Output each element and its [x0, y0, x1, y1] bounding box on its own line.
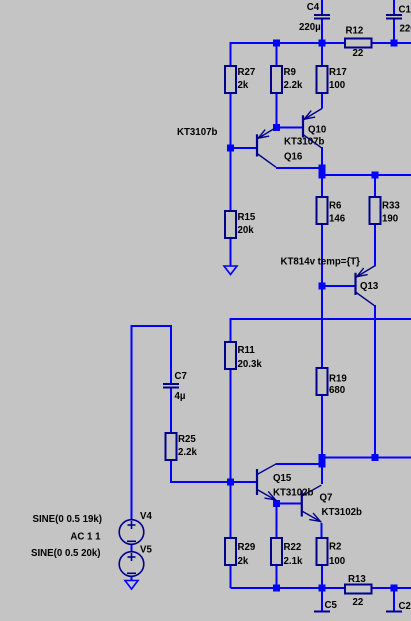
wire C1 top lead	[393, 0, 395, 14]
svg-text:220µ: 220µ	[299, 22, 321, 33]
wire C1 bottom lead	[393, 19, 395, 43]
svg-text:680: 680	[329, 385, 345, 396]
svg-text:R17: R17	[329, 67, 347, 78]
wire Q13 base	[322, 285, 356, 287]
node junction mid rail / R33	[372, 172, 379, 179]
svg-text:220: 220	[400, 24, 411, 35]
wire Q7 emitter to R2	[321, 523, 323, 538]
resistor R25	[166, 433, 198, 460]
svg-text:R15: R15	[238, 212, 256, 223]
wire V+ column to R27	[230, 42, 232, 66]
svg-text:KT814v temp={T}: KT814v temp={T}	[281, 257, 361, 268]
svg-text:22: 22	[353, 597, 364, 608]
wire loop to C7	[170, 325, 172, 383]
svg-text:R19: R19	[329, 374, 347, 385]
resistor R11	[225, 342, 262, 370]
capacitor C7	[163, 371, 187, 402]
wire mid rail right	[322, 174, 411, 176]
wire Q7 base	[277, 503, 302, 505]
wire C4 bottom lead	[321, 19, 323, 43]
node junction top rail / R9	[273, 40, 280, 47]
node junction Q13 base tap	[319, 283, 326, 290]
transistor Q16 (PNP)	[257, 128, 276, 168]
resistor R19	[317, 368, 348, 396]
svg-text:190: 190	[382, 214, 398, 225]
svg-text:SINE(0 0.5 20k): SINE(0 0.5 20k)	[31, 548, 100, 559]
svg-text:R9: R9	[284, 67, 297, 78]
svg-text:C5: C5	[325, 600, 338, 611]
wire V5 to ground	[131, 576, 133, 581]
wire C5 lead	[321, 588, 323, 611]
node junction bottom rail / R2-C5	[319, 585, 326, 592]
svg-text:R22: R22	[284, 542, 302, 553]
svg-text:C4: C4	[307, 2, 320, 13]
node junction R9 / Q16 emitter / Q10 base	[273, 124, 280, 131]
node junction Q16 base / R27-R15	[227, 145, 234, 152]
svg-text:100: 100	[329, 80, 345, 91]
svg-text:AC 1 1: AC 1 1	[70, 532, 101, 543]
wire C7 to R25	[170, 388, 172, 433]
svg-text:R12: R12	[346, 26, 364, 37]
capacitor C4	[299, 2, 330, 33]
wire Q16 base	[231, 147, 258, 149]
svg-text:KT3107b: KT3107b	[284, 137, 324, 148]
node junction output rail / R19	[319, 454, 326, 461]
wire top rail to R17	[321, 43, 323, 66]
wire top rail left	[231, 42, 346, 44]
resistor R33	[370, 197, 401, 225]
resistor R22	[271, 538, 303, 567]
svg-text:C2: C2	[399, 601, 411, 612]
svg-text:V4: V4	[140, 511, 152, 522]
capacitor C5	[314, 611, 330, 613]
svg-text:R2: R2	[329, 542, 341, 553]
wire R33 to Q13 emitter	[374, 224, 376, 267]
node junction top rail / C4	[319, 40, 326, 47]
svg-text:KT3102b: KT3102b	[273, 488, 313, 499]
svg-text:KT3102b: KT3102b	[322, 507, 362, 518]
capacitor C1	[386, 5, 411, 35]
svg-text:R6: R6	[329, 201, 342, 212]
wire output rail	[322, 457, 411, 459]
wire R22 to bottom rail	[276, 565, 278, 588]
wire rail corner to R11	[230, 318, 232, 342]
wire V4 column	[131, 325, 133, 520]
wire top rail right	[372, 42, 411, 44]
svg-text:C1: C1	[399, 5, 411, 16]
svg-text:Q10: Q10	[308, 125, 326, 136]
wire input rail	[171, 481, 257, 483]
svg-text:R25: R25	[178, 434, 196, 445]
node junction input rail / R11	[227, 479, 234, 486]
svg-text:R33: R33	[382, 201, 400, 212]
wire R2 to bottom rail	[321, 565, 323, 588]
node junction Q15 emitter / Q7 base	[273, 500, 280, 507]
svg-text:Q15: Q15	[273, 473, 292, 484]
resistor R9	[271, 66, 303, 93]
svg-text:KT3107b: KT3107b	[177, 127, 217, 138]
wire R25 to input rail	[170, 460, 172, 483]
wire Q13 collector down	[374, 305, 376, 458]
wire rail to R33	[374, 175, 376, 197]
wire R27 to R15	[230, 93, 232, 211]
wire source loop top	[132, 325, 172, 327]
svg-text:R13: R13	[348, 574, 366, 585]
wire R9 top	[276, 42, 278, 66]
svg-text:146: 146	[329, 214, 346, 225]
transistor Q13 (PNP)	[356, 266, 375, 306]
resistor R6	[317, 197, 346, 225]
resistor R12	[345, 26, 372, 60]
svg-text:R11: R11	[238, 345, 256, 356]
wire R19 down to Q7	[321, 395, 323, 484]
wire R29 to bottom rail	[230, 565, 232, 588]
wire Q10 collector down	[321, 147, 323, 197]
wire R11 to R29	[230, 369, 232, 538]
svg-text:C7: C7	[175, 371, 187, 382]
voltage source V4	[119, 511, 152, 544]
wire feedback rail	[231, 318, 411, 320]
resistor R17	[317, 66, 347, 93]
svg-text:2.2k: 2.2k	[178, 447, 197, 458]
wire C4 top lead	[321, 0, 323, 14]
node junction top rail / C1	[391, 40, 398, 47]
svg-text:R27: R27	[238, 67, 256, 78]
resistor R27	[225, 66, 255, 93]
transistor Q10 (PNP)	[303, 109, 322, 149]
svg-text:2.2k: 2.2k	[284, 80, 303, 91]
ground below V5	[125, 581, 138, 590]
voltage source V5	[119, 545, 152, 577]
wire R9 to node	[276, 93, 278, 128]
wire R6 down	[321, 224, 323, 368]
wire bottom rail right	[372, 587, 411, 589]
resistor R13	[345, 574, 372, 608]
svg-text:Q7: Q7	[320, 493, 333, 504]
svg-text:SINE(0 0.5 19k): SINE(0 0.5 19k)	[33, 514, 102, 525]
svg-text:V5: V5	[140, 545, 152, 556]
resistor R29	[225, 538, 256, 567]
svg-text:2.1k: 2.1k	[284, 556, 303, 567]
wire R17 to Q10 emitter	[321, 93, 323, 109]
wire Q7 base node down	[276, 504, 278, 539]
node junction bottom rail / R22	[273, 585, 280, 592]
svg-text:Q13: Q13	[360, 281, 379, 292]
node junction Q16 collector / R17 column	[319, 165, 326, 172]
wire V4 to V5	[131, 544, 133, 552]
transistor Q15 (NPN)	[257, 464, 277, 501]
transistor Q7 (NPN)	[302, 485, 322, 522]
svg-text:4µ: 4µ	[175, 391, 186, 402]
svg-text:22: 22	[353, 48, 364, 59]
svg-text:2k: 2k	[238, 556, 249, 567]
wire Q10 base	[277, 127, 304, 129]
svg-text:20.3k: 20.3k	[238, 359, 263, 370]
capacitor C2	[386, 611, 402, 613]
ground below R15	[224, 266, 237, 275]
node junction bottom rail / C2	[391, 585, 398, 592]
svg-text:100: 100	[329, 556, 345, 567]
node junction Q15 collector rail	[319, 461, 326, 468]
node junction output rail / Q13 collector	[372, 454, 379, 461]
svg-text:R29: R29	[238, 542, 256, 553]
resistor R2	[317, 538, 346, 567]
svg-text:20k: 20k	[238, 225, 255, 236]
wire Q16 collector rail	[276, 167, 322, 169]
wire bottom rail left	[231, 587, 346, 589]
resistor R15	[225, 211, 256, 238]
wire Q15 collector rail	[276, 463, 322, 465]
node junction mid rail / R6	[319, 172, 326, 179]
wire C2 lead	[393, 588, 395, 611]
svg-text:2k: 2k	[238, 80, 249, 91]
wire R15 to ground	[230, 238, 232, 266]
svg-text:Q16: Q16	[284, 152, 303, 163]
